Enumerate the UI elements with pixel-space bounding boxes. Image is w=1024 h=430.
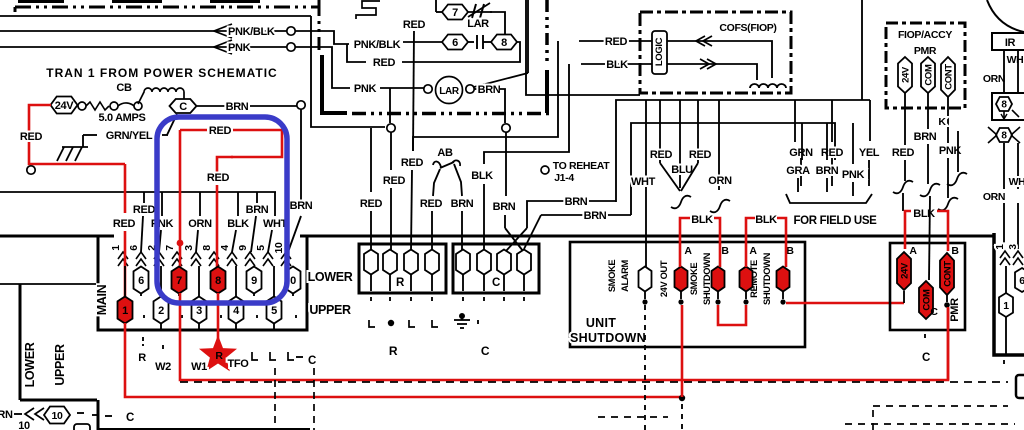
svg-text:RED: RED xyxy=(689,149,712,161)
svg-text:0: 0 xyxy=(290,275,296,287)
svg-text:MAIN: MAIN xyxy=(95,284,109,315)
svg-text:BLK: BLK xyxy=(471,170,493,182)
svg-text:RED: RED xyxy=(133,204,156,216)
svg-text:24V: 24V xyxy=(899,262,910,279)
svg-text:W2: W2 xyxy=(155,361,171,373)
svg-text:WH: WH xyxy=(1009,176,1024,188)
svg-text:PNK/BLK: PNK/BLK xyxy=(354,39,401,51)
svg-text:BRN: BRN xyxy=(914,131,937,143)
svg-text:FOR FIELD USE: FOR FIELD USE xyxy=(794,215,878,227)
svg-text:C: C xyxy=(179,101,187,113)
svg-text:9: 9 xyxy=(251,275,257,287)
svg-text:PNK: PNK xyxy=(842,169,865,181)
svg-text:RED: RED xyxy=(401,157,424,169)
svg-text:FIOP/ACCY: FIOP/ACCY xyxy=(898,29,952,41)
svg-text:5.0 AMPS: 5.0 AMPS xyxy=(99,112,146,124)
svg-text:RED: RED xyxy=(20,131,43,143)
svg-text:6: 6 xyxy=(452,37,458,49)
svg-text:7: 7 xyxy=(452,7,458,19)
svg-text:3: 3 xyxy=(1008,244,1019,250)
svg-text:TO REHEAT: TO REHEAT xyxy=(553,160,610,172)
svg-text:10: 10 xyxy=(273,242,285,253)
svg-text:C: C xyxy=(481,344,490,358)
svg-text:1: 1 xyxy=(122,305,128,317)
svg-text:R: R xyxy=(138,352,146,364)
svg-text:C: C xyxy=(492,277,500,289)
svg-text:3: 3 xyxy=(196,305,202,317)
svg-text:BLK: BLK xyxy=(606,59,628,71)
svg-text:CB: CB xyxy=(116,82,132,94)
svg-text:BRN: BRN xyxy=(226,101,249,113)
svg-text:UNIT: UNIT xyxy=(586,316,616,330)
svg-text:R: R xyxy=(396,277,405,289)
svg-text:CONT: CONT xyxy=(943,64,954,90)
svg-text:BLK: BLK xyxy=(227,218,249,230)
svg-text:4: 4 xyxy=(219,245,231,251)
svg-text:B: B xyxy=(786,245,794,257)
svg-text:BRN: BRN xyxy=(478,84,501,96)
svg-text:WH: WH xyxy=(1007,54,1024,66)
svg-text:C: C xyxy=(308,355,316,367)
svg-text:SHUTDOWN: SHUTDOWN xyxy=(570,331,646,345)
svg-text:RED: RED xyxy=(605,36,628,48)
svg-text:RED: RED xyxy=(113,218,136,230)
svg-text:R: R xyxy=(215,350,223,362)
svg-text:6: 6 xyxy=(138,275,144,287)
svg-text:C: C xyxy=(930,306,938,318)
svg-text:PNK/BLK: PNK/BLK xyxy=(228,26,275,38)
svg-text:B: B xyxy=(951,245,959,257)
svg-text:PNK: PNK xyxy=(228,42,251,54)
svg-text:CONT: CONT xyxy=(942,261,953,287)
svg-text:BRN: BRN xyxy=(584,210,607,222)
svg-text:LOGIC: LOGIC xyxy=(654,37,665,66)
svg-text:7: 7 xyxy=(164,245,176,251)
svg-text:LAR: LAR xyxy=(439,86,460,97)
svg-text:1: 1 xyxy=(1003,300,1009,312)
svg-text:TFO: TFO xyxy=(228,358,250,370)
svg-text:J1-4: J1-4 xyxy=(554,172,574,184)
svg-text:PNK: PNK xyxy=(354,83,377,95)
svg-text:W1: W1 xyxy=(191,361,207,373)
svg-text:SMOKE: SMOKE xyxy=(689,263,699,295)
svg-text:ORN: ORN xyxy=(983,73,1005,85)
svg-text:RED: RED xyxy=(383,175,406,187)
svg-text:10: 10 xyxy=(18,420,30,430)
svg-text:PMR: PMR xyxy=(949,298,961,322)
svg-text:24V OUT: 24V OUT xyxy=(659,260,669,297)
svg-text:RED: RED xyxy=(650,149,673,161)
svg-text:8: 8 xyxy=(201,245,213,251)
svg-text:LOWER: LOWER xyxy=(308,270,353,284)
svg-text:9: 9 xyxy=(237,245,249,251)
svg-text:SHUTDOWN: SHUTDOWN xyxy=(762,252,772,305)
svg-text:6: 6 xyxy=(1019,275,1024,287)
svg-text:BLK: BLK xyxy=(913,208,935,220)
svg-text:LOWER: LOWER xyxy=(23,342,37,387)
svg-text:RED: RED xyxy=(360,198,383,210)
svg-text:B: B xyxy=(721,245,729,257)
svg-text:C: C xyxy=(126,412,134,424)
svg-text:BRN: BRN xyxy=(565,196,588,208)
svg-text:RED: RED xyxy=(209,125,232,137)
svg-text:A: A xyxy=(749,245,757,257)
svg-text:IR: IR xyxy=(1005,37,1016,49)
svg-text:24V: 24V xyxy=(55,100,75,112)
svg-text:RED: RED xyxy=(207,172,230,184)
svg-text:UPPER: UPPER xyxy=(309,303,351,317)
svg-text:7: 7 xyxy=(176,275,182,287)
svg-text:YEL: YEL xyxy=(859,147,880,159)
svg-text:BRN: BRN xyxy=(246,204,269,216)
svg-text:1: 1 xyxy=(995,244,1006,250)
svg-text:WHT: WHT xyxy=(631,176,656,188)
svg-text:COM: COM xyxy=(923,64,934,86)
svg-text:24V: 24V xyxy=(900,66,911,83)
svg-text:5: 5 xyxy=(271,305,277,317)
svg-text:5: 5 xyxy=(255,245,267,251)
svg-text:RED: RED xyxy=(892,147,915,159)
svg-text:3: 3 xyxy=(183,245,195,251)
svg-text:ORN: ORN xyxy=(188,218,212,230)
svg-text:PMR: PMR xyxy=(914,45,937,57)
svg-text:8: 8 xyxy=(215,275,221,287)
svg-text:A: A xyxy=(909,245,917,257)
svg-text:RED: RED xyxy=(420,198,443,210)
svg-text:SHUTDOWN: SHUTDOWN xyxy=(702,252,712,305)
svg-text:ALARM: ALARM xyxy=(620,259,630,291)
svg-text:ORN: ORN xyxy=(983,191,1005,203)
svg-text:AB: AB xyxy=(437,147,453,159)
svg-text:BLK: BLK xyxy=(691,214,713,226)
svg-text:BRN: BRN xyxy=(493,201,516,213)
svg-text:BRN: BRN xyxy=(290,200,313,212)
svg-text:BLU: BLU xyxy=(671,164,693,176)
svg-text:RED: RED xyxy=(403,19,426,31)
svg-text:WHT: WHT xyxy=(263,218,288,230)
svg-text:RN: RN xyxy=(0,409,13,421)
svg-text:8: 8 xyxy=(501,37,507,49)
svg-text:ORN: ORN xyxy=(708,175,732,187)
svg-text:LAR: LAR xyxy=(467,18,489,30)
svg-text:R: R xyxy=(389,344,398,358)
svg-text:C: C xyxy=(922,352,930,364)
svg-text:RED: RED xyxy=(373,57,396,69)
svg-text:GRN/YEL: GRN/YEL xyxy=(106,130,153,142)
svg-text:BLK: BLK xyxy=(755,214,777,226)
svg-text:BRN: BRN xyxy=(816,165,839,177)
svg-text:BRN: BRN xyxy=(451,198,474,210)
svg-text:GRA: GRA xyxy=(786,165,810,177)
svg-text:K: K xyxy=(938,116,946,128)
svg-text:UPPER: UPPER xyxy=(53,344,67,386)
svg-text:1: 1 xyxy=(110,245,122,251)
svg-text:TRAN 1 FROM POWER SCHEMATIC: TRAN 1 FROM POWER SCHEMATIC xyxy=(46,66,277,80)
svg-text:8: 8 xyxy=(1001,100,1007,111)
svg-text:10: 10 xyxy=(52,410,63,422)
svg-text:2: 2 xyxy=(158,305,164,317)
svg-text:A: A xyxy=(684,245,692,257)
svg-text:SMOKE: SMOKE xyxy=(607,260,617,292)
svg-text:8: 8 xyxy=(1001,131,1007,142)
svg-text:RED: RED xyxy=(821,147,844,159)
svg-text:6: 6 xyxy=(128,245,140,251)
svg-text:COFS(FIOP): COFS(FIOP) xyxy=(719,22,776,34)
